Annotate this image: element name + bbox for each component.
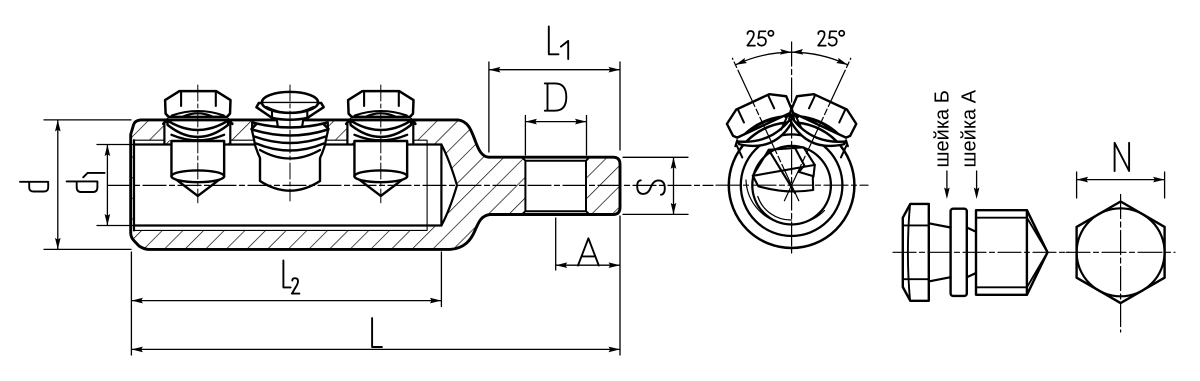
svg-text:шейка А: шейка А	[959, 89, 981, 167]
seat ticks	[252, 124, 329, 129]
thread 3/4 arc	[746, 180, 825, 224]
pocket seat ticks	[346, 119, 415, 124]
pin D-window edges	[522, 157, 590, 214]
pocket hole edges	[347, 123, 413, 144]
cone base ellipse	[354, 170, 407, 182]
bell arcs	[355, 111, 407, 116]
dim L	[131, 307, 620, 356]
hex head skirt	[256, 103, 323, 120]
outer circle	[729, 122, 855, 248]
dim S	[623, 157, 688, 214]
pocket hole edges	[164, 123, 230, 144]
cone	[1027, 210, 1048, 295]
bolt right (rotated +25)	[780, 87, 862, 158]
neck B taper	[929, 223, 951, 281]
bell arcs	[172, 111, 224, 116]
horizontal centerline	[716, 184, 868, 186]
cylinder	[260, 148, 320, 191]
seat ticks	[733, 113, 798, 147]
bore left opening edge	[133, 140, 135, 230]
dim d1	[97, 145, 133, 226]
label L2	[283, 261, 299, 294]
dim A	[556, 216, 620, 355]
pocket mouth arc	[171, 135, 224, 141]
washer	[737, 115, 799, 155]
label L	[372, 318, 382, 347]
washer	[350, 120, 412, 137]
neck A taper	[967, 228, 976, 278]
dim d	[44, 120, 131, 250]
inner bolt tips polygon	[753, 147, 815, 193]
lug body outline	[131, 120, 620, 250]
dim N	[1077, 172, 1165, 198]
dim L2	[131, 252, 441, 307]
ring stack fill	[252, 123, 328, 159]
sheyka A arrow	[976, 171, 978, 196]
bore chamfer arc	[758, 197, 792, 221]
hex head	[903, 204, 929, 301]
centerline	[893, 251, 1069, 253]
shank	[171, 141, 224, 176]
ring side edges	[252, 123, 328, 158]
ring arcs	[252, 123, 327, 128]
pocket mouth arc	[354, 135, 407, 141]
hex head	[165, 91, 230, 117]
label S (rotated)	[637, 180, 665, 194]
bore inner walls (thick)	[134, 145, 441, 226]
centerline	[380, 85, 382, 203]
bore thread thin lines	[134, 140, 427, 230]
hatched metal body (fill)	[131, 119, 620, 249]
bolt left (rotated -25)	[721, 87, 803, 158]
shank	[354, 141, 407, 176]
cone tip	[172, 176, 224, 196]
dim D	[525, 116, 586, 156]
washer	[167, 120, 229, 137]
hex head	[723, 88, 793, 139]
facet lines	[272, 112, 307, 118]
label d	[20, 182, 48, 192]
pocket seat ticks	[163, 119, 232, 124]
centerlines	[1066, 195, 1175, 333]
body	[976, 210, 1027, 295]
second circle	[741, 134, 843, 236]
pocket edges	[737, 117, 803, 157]
hexagon	[1077, 202, 1165, 304]
cone base ellipse	[171, 170, 224, 182]
label L1	[549, 27, 568, 60]
label A	[578, 238, 599, 265]
sheyka labels	[932, 89, 981, 167]
label 25deg right	[818, 31, 844, 46]
cone tip	[355, 176, 407, 196]
dim L1	[489, 62, 620, 152]
inscribed circle	[1077, 208, 1165, 296]
ring	[951, 209, 967, 296]
neck	[277, 118, 304, 128]
tilted centerlines	[732, 58, 850, 200]
main horizontal centerline	[108, 184, 713, 186]
label D	[545, 83, 567, 110]
bore end cone	[441, 145, 457, 226]
hex head	[348, 91, 413, 117]
label d1	[67, 173, 105, 192]
head top ellipse	[262, 92, 318, 113]
label N	[1115, 143, 1130, 171]
sheyka B arrow	[946, 171, 948, 196]
svg-text:шейка Б: шейка Б	[932, 90, 954, 167]
centerline	[197, 85, 199, 203]
vertical centerline	[791, 42, 793, 253]
bore circle	[752, 146, 831, 225]
25 degree arcs	[734, 49, 849, 67]
label 25deg left	[747, 31, 773, 46]
